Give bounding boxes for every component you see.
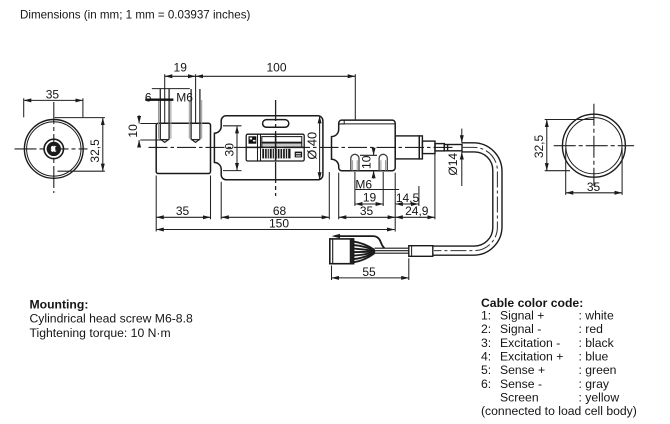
label barcode [262, 149, 290, 159]
dim line 35 left block [156, 216, 210, 218]
main axis centerline [149, 146, 456, 148]
cable loop centerline [434, 147, 497, 250]
body vertical centerline [275, 100, 277, 196]
ext line right block hole R1 center (top) [354, 74, 356, 120]
svg-text:Mounting:: Mounting: [30, 297, 89, 311]
screen wire arrowhead [332, 234, 340, 238]
svg-text:55: 55 [362, 265, 376, 279]
gland nut [422, 141, 435, 154]
svg-text:14,5: 14,5 [396, 191, 420, 205]
left view boss circle [44, 139, 63, 158]
left view outer circle [24, 119, 83, 178]
right view inner circle [566, 118, 622, 174]
dim line 68 [221, 216, 329, 218]
svg-text:M6: M6 [355, 177, 372, 191]
left view inner circle [27, 122, 81, 176]
ext hole R2 center down [382, 172, 384, 206]
M6 leader line (right) [355, 189, 399, 191]
right view horizontal centerline [554, 145, 634, 147]
svg-text:100: 100 [266, 61, 286, 75]
svg-text:10: 10 [126, 124, 140, 138]
svg-text:Sense +: Sense + [500, 363, 545, 377]
dim line 19 (right) [355, 203, 383, 205]
svg-text:1:: 1: [481, 309, 491, 323]
ext body right (68) [328, 172, 330, 219]
svg-text:6: 6 [145, 90, 152, 104]
hole L2 bottom and tip [191, 140, 200, 143]
dim line 24,9 [395, 216, 435, 218]
axis overlay across label [246, 146, 306, 148]
right mounting block outline with left tongue [332, 120, 396, 171]
svg-text:19: 19 [174, 61, 188, 75]
svg-text:4:: 4: [481, 350, 491, 364]
svg-text:Dimensions (in mm; 1 mm = 0.03: Dimensions (in mm; 1 mm = 0.03937 inches… [20, 9, 250, 22]
dim 32,5 left-view dimension line [102, 118, 104, 172]
svg-text:35: 35 [360, 204, 374, 218]
cable loop outer edge [433, 143, 502, 255]
hole L2 thread lines [188, 100, 190, 139]
body top oval slot [263, 120, 289, 128]
hole L1 thread lines [158, 100, 160, 139]
svg-text:Ø 40: Ø 40 [305, 132, 320, 160]
svg-text:: blue: : blue [579, 350, 609, 364]
ext line hole bottom [140, 139, 161, 141]
svg-text:: green: : green [579, 363, 617, 377]
hole L2 side walls [190, 89, 192, 140]
svg-text:Screen: Screen [500, 391, 539, 405]
ext line hole L1 center [164, 74, 166, 123]
svg-text:M6: M6 [176, 91, 193, 105]
svg-text:150: 150 [269, 217, 289, 231]
svg-text:Tightening torque: 10 N·m: Tightening torque: 10 N·m [30, 326, 171, 340]
svg-text:32,5: 32,5 [532, 134, 546, 158]
ext hole R1 center down [354, 172, 356, 206]
left view hub center tick [55, 147, 57, 151]
dim line 35 right block [339, 216, 396, 218]
label logo dark square [249, 136, 257, 143]
body centerline overlay across label [275, 134, 277, 162]
right block top lip line [339, 123, 395, 125]
svg-text:6:: 6: [481, 377, 491, 391]
svg-text:35: 35 [176, 204, 190, 218]
ext right block left [338, 173, 340, 220]
dim 10 right: ext at hole top [360, 154, 377, 156]
dim 55 [332, 258, 409, 280]
svg-text:10: 10 [360, 155, 374, 169]
hole R2 thread lines [380, 160, 382, 170]
dim line 150 [156, 229, 394, 231]
dim 10 arrow bottom [138, 140, 140, 147]
hole R1 [351, 154, 359, 170]
left view horizontal centerline [15, 148, 88, 150]
svg-text:(connected to load cell body): (connected to load cell body) [481, 404, 637, 418]
gland boss [395, 136, 419, 159]
ext line 14,5 right end [418, 186, 420, 206]
dim 35 top-left dimension line [24, 99, 83, 101]
left view vertical centerline [53, 102, 55, 193]
ferrule inner line [411, 246, 413, 257]
dim 10 right arrows [373, 148, 375, 156]
svg-text:Signal +: Signal + [500, 309, 544, 323]
svg-text:: white: : white [579, 309, 614, 323]
ext line 30 bottom [223, 170, 242, 172]
hole R2 [379, 154, 387, 170]
dim line 14,5 [395, 203, 418, 205]
connector wires fan [354, 242, 376, 263]
left mounting block [156, 123, 210, 173]
ext right block right / 150 right [394, 173, 396, 232]
hole L1 bottom and tip [160, 140, 169, 143]
dim 32,5 right-view dim line [546, 120, 548, 171]
dim 35 right-view ext lines [565, 148, 567, 195]
left view hub white center [51, 146, 56, 151]
svg-text:24,9: 24,9 [405, 204, 429, 218]
callout thin line [152, 88, 190, 90]
label small dark box bottom right [295, 152, 302, 158]
svg-text:: yellow: : yellow [579, 391, 620, 405]
dim 14 arrow top [461, 129, 463, 143]
svg-text:5:: 5: [481, 363, 491, 377]
hole L1 side walls [159, 89, 161, 140]
svg-text:35: 35 [46, 88, 60, 102]
right block corner step [339, 120, 344, 124]
dim 32,5 right-view ext lines [545, 119, 594, 121]
dim line 100 (top) [196, 75, 356, 77]
label outer rect [246, 134, 304, 161]
gland step [435, 144, 444, 151]
svg-text:: gray: : gray [579, 377, 610, 391]
dim 14 arrow bottom [461, 152, 463, 186]
cable stub [444, 145, 462, 151]
dim line 19 (top) [165, 75, 196, 77]
cable bundle lines to ferrule [375, 248, 409, 253]
svg-text:Sense -: Sense - [500, 377, 542, 391]
svg-text:Excitation +: Excitation + [500, 350, 563, 364]
label second band [262, 143, 302, 147]
svg-text:30: 30 [223, 143, 237, 157]
svg-text:: black: : black [579, 336, 615, 350]
ext line 30 top [223, 125, 242, 127]
right view vertical centerline [593, 104, 595, 186]
screen wire over connector [335, 236, 385, 248]
label top text band [262, 137, 302, 143]
ext body left [220, 182, 222, 220]
dim 35 right-view dim line [566, 192, 622, 194]
svg-text:: red: : red [579, 322, 603, 336]
dim 32,5 left-view extension lines [55, 117, 105, 119]
svg-text:Signal -: Signal - [500, 322, 541, 336]
svg-text:35: 35 [587, 180, 601, 194]
ext line hole L2 center [195, 74, 197, 123]
ext left block left [155, 176, 157, 232]
svg-text:Excitation -: Excitation - [500, 336, 560, 350]
label white notches above barcode [264, 147, 271, 149]
svg-text:32,5: 32,5 [88, 139, 102, 163]
connector inner lines [332, 239, 334, 264]
ferrule [409, 246, 433, 257]
connector cap dark band [350, 239, 353, 263]
central body outline with left tongue [214, 116, 323, 180]
callout thick line [145, 99, 173, 101]
svg-text:19: 19 [363, 191, 377, 205]
dim line 30 [236, 126, 238, 171]
dim 35 top-left extension lines [23, 98, 25, 117]
ext left block right [210, 176, 212, 220]
cable loop inner edge [433, 152, 493, 246]
gland flange [419, 136, 422, 159]
ext line block top [140, 123, 157, 125]
svg-text:Ø14: Ø14 [446, 153, 460, 176]
label column separator lines [257, 134, 259, 160]
ext 24,9 right end [434, 152, 436, 219]
connector body [330, 239, 354, 264]
right view outer circle [562, 114, 625, 177]
dim 10 arrow top [138, 115, 140, 123]
svg-text:2:: 2: [481, 322, 491, 336]
hole R1 thread lines [352, 160, 354, 170]
left view dark hub ring [49, 144, 59, 154]
svg-text:3:: 3: [481, 336, 491, 350]
svg-text:Cylindrical head screw M6-8.8: Cylindrical head screw M6-8.8 [30, 312, 193, 326]
